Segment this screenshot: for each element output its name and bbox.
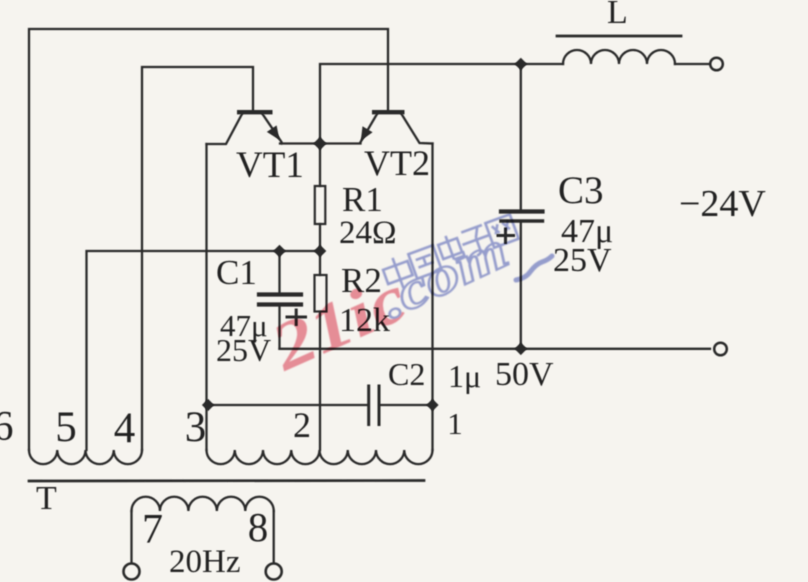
svg-text:R1: R1	[342, 180, 383, 219]
svg-text:−24V: −24V	[679, 183, 766, 225]
svg-text:4: 4	[114, 405, 136, 452]
junction dot emitters/R1	[313, 137, 326, 150]
wire C3 bottom to lower rail	[520, 223, 522, 349]
winding 8 terminal circle	[266, 564, 282, 580]
transistor VT2 base bar	[372, 110, 405, 114]
transistor VT1 collector leg	[207, 114, 243, 144]
resistor R2 body	[315, 275, 327, 312]
svg-text:1: 1	[447, 406, 463, 441]
svg-text:25V: 25V	[216, 332, 271, 368]
svg-text:20Hz: 20Hz	[169, 544, 240, 580]
resistor R1 body	[315, 186, 326, 224]
feedback winding 7-8 humps	[132, 497, 274, 511]
svg-text:24Ω: 24Ω	[339, 215, 397, 251]
svg-text:6: 6	[0, 404, 14, 450]
winding 7 lead	[130, 511, 132, 563]
resistor R1 leads	[319, 144, 321, 187]
watermark m swash tail	[516, 256, 552, 280]
transistor VT2 collector leg	[402, 114, 433, 144]
char wang	[485, 214, 518, 247]
winding 8 lead	[273, 511, 275, 563]
svg-text:1μ: 1μ	[448, 358, 481, 394]
svg-text:50V: 50V	[495, 356, 554, 393]
node dot R1/R2 junction	[314, 245, 327, 258]
svg-text:C2: C2	[388, 356, 425, 392]
node dot 1	[426, 399, 438, 411]
capacitor C2 wire right segment to node 1	[381, 404, 433, 406]
capacitor C2 plates	[367, 386, 370, 425]
wire VT1 collector down to winding terminal 3	[205, 144, 207, 450]
char guo	[408, 245, 441, 278]
resistor R2 lead and body	[319, 251, 321, 275]
svg-text:L: L	[607, 0, 628, 31]
lower output rail wire	[280, 348, 711, 350]
transistor VT2 emitter leg	[360, 114, 377, 143]
svg-text:VT1: VT1	[236, 145, 304, 186]
wire from winding terminal 4 to VT1 base	[142, 67, 253, 450]
node dot top rail to C3	[515, 58, 528, 71]
capacitor C3 plates	[501, 209, 543, 213]
wire from winding tap 5 to R1/R2 junction	[87, 251, 321, 450]
winding 7 terminal circle	[124, 564, 140, 580]
capacitor C1 top lead wire	[278, 251, 280, 292]
transformer core line	[29, 479, 424, 482]
svg-text:5: 5	[55, 404, 77, 451]
svg-text:T: T	[36, 480, 57, 517]
svg-text:VT2: VT2	[364, 143, 430, 183]
wire VT2 collector down to winding terminal 1	[431, 144, 433, 451]
svg-text:C3: C3	[558, 169, 604, 212]
capacitor C1 bottom lead to lower rail	[278, 307, 280, 349]
svg-text:7: 7	[142, 507, 163, 553]
C1 polarity plus sign	[286, 309, 308, 327]
output terminal bottom circle	[714, 343, 727, 356]
wire inductor to output terminal	[675, 63, 710, 65]
inductor L core bar	[557, 35, 681, 38]
transformer primary winding 3-2-1	[207, 450, 433, 464]
transistor VT1 emitter leg	[263, 114, 283, 144]
C3 polarity plus sign	[497, 228, 516, 245]
output terminal top circle	[710, 58, 723, 71]
char zi	[458, 224, 494, 259]
node dot 3	[202, 399, 214, 411]
capacitor C1 plates	[259, 292, 301, 296]
VT2 emitter arrow	[361, 126, 373, 141]
transistor VT1 base bar	[237, 110, 273, 114]
char zhong	[380, 254, 415, 293]
wire VT1 emitter to junction	[280, 142, 320, 144]
wire VT2 emitter to junction	[320, 142, 361, 144]
capacitor C2 wire left segment from node 3	[207, 404, 368, 406]
wire top rail from winding terminal 6 to VT2 base	[29, 29, 388, 450]
transformer winding 6-5-4	[29, 450, 142, 464]
node dot bottom rail C3	[515, 343, 528, 356]
inductor L winding humps	[563, 50, 675, 64]
svg-text:8: 8	[248, 504, 269, 550]
wire C3 branch vertical	[520, 64, 522, 209]
wire R2 bottom to winding tap 2	[319, 312, 321, 451]
node dot C1 top	[273, 245, 286, 258]
svg-text:25V: 25V	[553, 242, 612, 279]
svg-text:C1: C1	[216, 253, 257, 292]
svg-text:3: 3	[185, 404, 207, 451]
VT1 emitter arrow	[267, 125, 280, 140]
watermark chinese characters	[380, 214, 518, 292]
char dian	[436, 232, 464, 263]
wire emitter node to output rail with inductor feed	[320, 64, 563, 144]
svg-text:2: 2	[293, 405, 311, 445]
watermark 21ic.com logo	[260, 214, 552, 385]
